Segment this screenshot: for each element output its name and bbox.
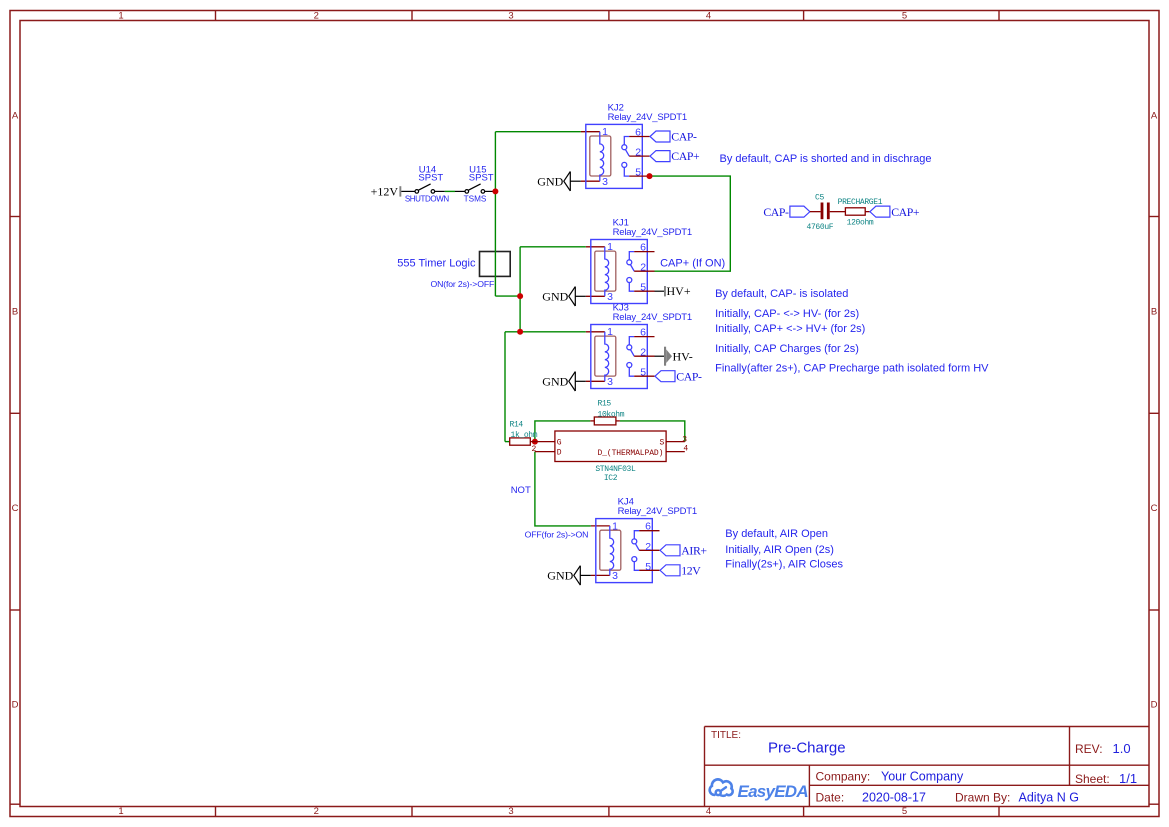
svg-text:ON(for 2s)->OFF: ON(for 2s)->OFF	[431, 279, 495, 289]
svg-text:3: 3	[682, 435, 687, 444]
svg-text:1: 1	[118, 11, 123, 22]
svg-text:3: 3	[612, 570, 618, 582]
svg-text:D: D	[12, 699, 19, 710]
svg-text:HV+: HV+	[667, 284, 691, 298]
svg-text:CAP-: CAP-	[671, 130, 697, 144]
svg-text:+12V: +12V	[371, 185, 399, 199]
svg-text:By default, AIR Open: By default, AIR Open	[725, 528, 828, 540]
svg-text:3: 3	[508, 806, 513, 817]
svg-text:By default, CAP- is isolated: By default, CAP- is isolated	[715, 288, 848, 300]
svg-text:1: 1	[607, 241, 613, 253]
svg-text:AIR+: AIR+	[681, 543, 707, 557]
svg-text:Relay_24V_SPDT1: Relay_24V_SPDT1	[613, 227, 692, 238]
svg-text:5: 5	[902, 806, 907, 817]
svg-text:120ohm: 120ohm	[847, 218, 874, 227]
svg-text:IC2: IC2	[604, 474, 618, 483]
svg-text:Initially, CAP+ <-> HV+ (for 2: Initially, CAP+ <-> HV+ (for 2s)	[715, 323, 865, 335]
svg-text:By default, CAP is shorted and: By default, CAP is shorted and in dischr…	[720, 153, 932, 165]
svg-text:2020-08-17: 2020-08-17	[862, 790, 926, 804]
svg-text:5: 5	[645, 561, 651, 573]
svg-text:1k_ohm: 1k_ohm	[511, 431, 538, 440]
svg-text:R15: R15	[598, 399, 612, 408]
svg-text:2: 2	[640, 347, 646, 359]
svg-text:5: 5	[640, 367, 646, 379]
svg-text:C5: C5	[815, 194, 824, 203]
svg-text:1.0: 1.0	[1113, 741, 1131, 756]
svg-text:Initially, CAP- <-> HV- (for 2: Initially, CAP- <-> HV- (for 2s)	[715, 308, 859, 320]
svg-text:TSMS: TSMS	[464, 195, 487, 204]
svg-text:Initially, CAP Charges (for 2s: Initially, CAP Charges (for 2s)	[715, 343, 859, 355]
svg-text:3: 3	[607, 291, 613, 303]
svg-text:EasyEDA: EasyEDA	[738, 782, 809, 801]
svg-text:REV:: REV:	[1075, 742, 1103, 756]
svg-text:2: 2	[531, 445, 536, 454]
svg-text:HV-: HV-	[673, 349, 693, 363]
svg-text:4: 4	[683, 445, 688, 454]
svg-text:A: A	[1151, 110, 1158, 121]
svg-text:1: 1	[607, 326, 613, 338]
svg-text:6: 6	[640, 326, 646, 338]
svg-text:3: 3	[607, 376, 613, 388]
svg-text:R14: R14	[510, 420, 524, 429]
svg-text:GND: GND	[537, 174, 563, 188]
svg-text:Relay_24V_SPDT1: Relay_24V_SPDT1	[618, 506, 697, 517]
svg-text:NOT: NOT	[511, 485, 531, 496]
svg-text:CAP-: CAP-	[763, 205, 789, 219]
svg-text:6: 6	[640, 241, 646, 253]
svg-text:S: S	[659, 439, 664, 448]
svg-text:2: 2	[314, 11, 319, 22]
svg-text:4: 4	[706, 11, 711, 22]
svg-text:Relay_24V_SPDT1: Relay_24V_SPDT1	[613, 312, 692, 323]
svg-text:TITLE:: TITLE:	[711, 730, 741, 741]
svg-text:A: A	[12, 110, 19, 121]
svg-text:SPST: SPST	[418, 173, 443, 184]
svg-text:Finally(2s+), AIR Closes: Finally(2s+), AIR Closes	[725, 559, 843, 571]
svg-text:2: 2	[645, 541, 651, 553]
svg-text:Pre-Charge: Pre-Charge	[768, 739, 846, 756]
svg-text:2: 2	[635, 147, 641, 159]
svg-text:SHUTDOWN: SHUTDOWN	[405, 195, 450, 204]
svg-text:C: C	[1151, 503, 1158, 514]
svg-text:OFF(for 2s)->ON: OFF(for 2s)->ON	[525, 529, 589, 539]
svg-text:D: D	[557, 449, 562, 458]
svg-text:Relay_24V_SPDT1: Relay_24V_SPDT1	[608, 112, 687, 123]
svg-text:GND: GND	[542, 290, 568, 304]
svg-text:D: D	[1151, 699, 1158, 710]
svg-text:Company:: Company:	[816, 770, 871, 784]
svg-text:10kohm: 10kohm	[598, 411, 625, 420]
svg-text:1: 1	[602, 126, 608, 138]
svg-text:CAP-: CAP-	[676, 369, 702, 383]
svg-text:CAP+ (If ON): CAP+ (If ON)	[660, 257, 725, 269]
svg-text:Sheet:: Sheet:	[1075, 772, 1110, 786]
svg-text:B: B	[12, 307, 18, 318]
svg-text:4760uF: 4760uF	[807, 223, 834, 232]
svg-text:4: 4	[706, 806, 711, 817]
svg-text:G: G	[557, 439, 562, 448]
svg-text:12V: 12V	[681, 563, 701, 577]
svg-text:1: 1	[118, 806, 123, 817]
svg-text:Initially, AIR Open (2s): Initially, AIR Open (2s)	[725, 544, 834, 556]
svg-text:Your Company: Your Company	[881, 770, 964, 784]
svg-text:2: 2	[314, 806, 319, 817]
svg-text:5: 5	[902, 11, 907, 22]
svg-text:SPST: SPST	[469, 173, 494, 184]
svg-text:1: 1	[612, 520, 618, 532]
svg-text:3: 3	[602, 176, 608, 188]
svg-text:Finally(after 2s+), CAP Precha: Finally(after 2s+), CAP Precharge path i…	[715, 363, 989, 375]
svg-text:GND: GND	[547, 569, 573, 583]
svg-text:5: 5	[640, 282, 646, 294]
svg-text:CAP+: CAP+	[891, 205, 920, 219]
svg-text:GND: GND	[542, 375, 568, 389]
svg-text:PRECHARGE1: PRECHARGE1	[838, 198, 883, 207]
svg-text:6: 6	[635, 126, 641, 138]
svg-text:Aditya N G: Aditya N G	[1019, 790, 1079, 804]
svg-text:6: 6	[645, 521, 651, 533]
svg-text:D_(THERMALPAD): D_(THERMALPAD)	[597, 449, 663, 458]
svg-text:B: B	[1151, 307, 1157, 318]
svg-text:1/1: 1/1	[1119, 771, 1137, 786]
svg-text:3: 3	[508, 11, 513, 22]
svg-text:5: 5	[635, 167, 641, 179]
svg-text:Date:: Date:	[816, 790, 845, 804]
svg-text:2: 2	[640, 262, 646, 274]
svg-text:CAP+: CAP+	[671, 149, 700, 163]
svg-text:STN4NF03L: STN4NF03L	[595, 465, 636, 474]
svg-text:Drawn By:: Drawn By:	[955, 790, 1010, 804]
svg-text:555 Timer Logic: 555 Timer Logic	[397, 258, 476, 270]
svg-text:C: C	[12, 503, 19, 514]
